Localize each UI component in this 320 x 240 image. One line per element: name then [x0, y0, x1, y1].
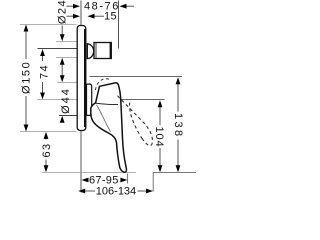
extension line plate bottom: [20, 131, 77, 133]
dimension Ø24 arrows: [57, 0, 69, 82]
dimension 15: [67, 11, 118, 23]
extension line knob top: [56, 41, 77, 43]
dimension 67-95: [82, 175, 128, 187]
svg-text:104: 104: [153, 126, 165, 147]
extension line lever tip level left: [42, 171, 136, 173]
rotation arc dashed: [95, 79, 111, 90]
extension line handle axis: [37, 99, 77, 101]
extension line solid lever top: [90, 76, 183, 78]
lever handle open position dashed: [118, 96, 153, 146]
svg-text:Ø150: Ø150: [21, 61, 33, 94]
extension line 106-134 right: [152, 173, 154, 192]
svg-text:74: 74: [39, 64, 51, 79]
dimension 48-76: [67, 1, 135, 13]
svg-text:63: 63: [41, 142, 53, 157]
svg-text:106-134: 106-134: [96, 186, 136, 198]
extension line 67-95 right: [127, 173, 129, 183]
dimension 74: [39, 49, 51, 100]
extension line sleeve bottom: [59, 115, 77, 117]
diverter knob cylinder: [94, 43, 111, 59]
extension line open lever top: [118, 99, 165, 101]
handle sleeve: [87, 84, 92, 115]
wall reference line lower segment: [80, 131, 82, 193]
dimension 106-134: [78, 186, 153, 198]
escutcheon plate side view: [77, 26, 86, 131]
dimension Ø44: [60, 87, 72, 123]
dimension 63: [41, 132, 53, 172]
svg-text:15: 15: [104, 11, 117, 23]
svg-text:138: 138: [172, 113, 184, 139]
extension line knob axis: [38, 48, 87, 50]
lever handle solid: [91, 83, 127, 172]
svg-text:Ø44: Ø44: [60, 87, 72, 114]
dimension 104: [153, 100, 165, 172]
extension line lever tip level right: [153, 171, 196, 173]
extension line knob bottom: [56, 57, 77, 59]
svg-text:Ø24: Ø24: [57, 0, 69, 24]
wall reference line upper segment: [80, 1, 82, 26]
extension line plate top: [20, 24, 77, 26]
diverter knob dome: [87, 44, 93, 59]
extension line sleeve top: [57, 82, 77, 84]
dimension 138: [172, 77, 184, 172]
extension line 48-76 right: [118, 1, 120, 49]
dimension Ø150: [21, 25, 33, 132]
